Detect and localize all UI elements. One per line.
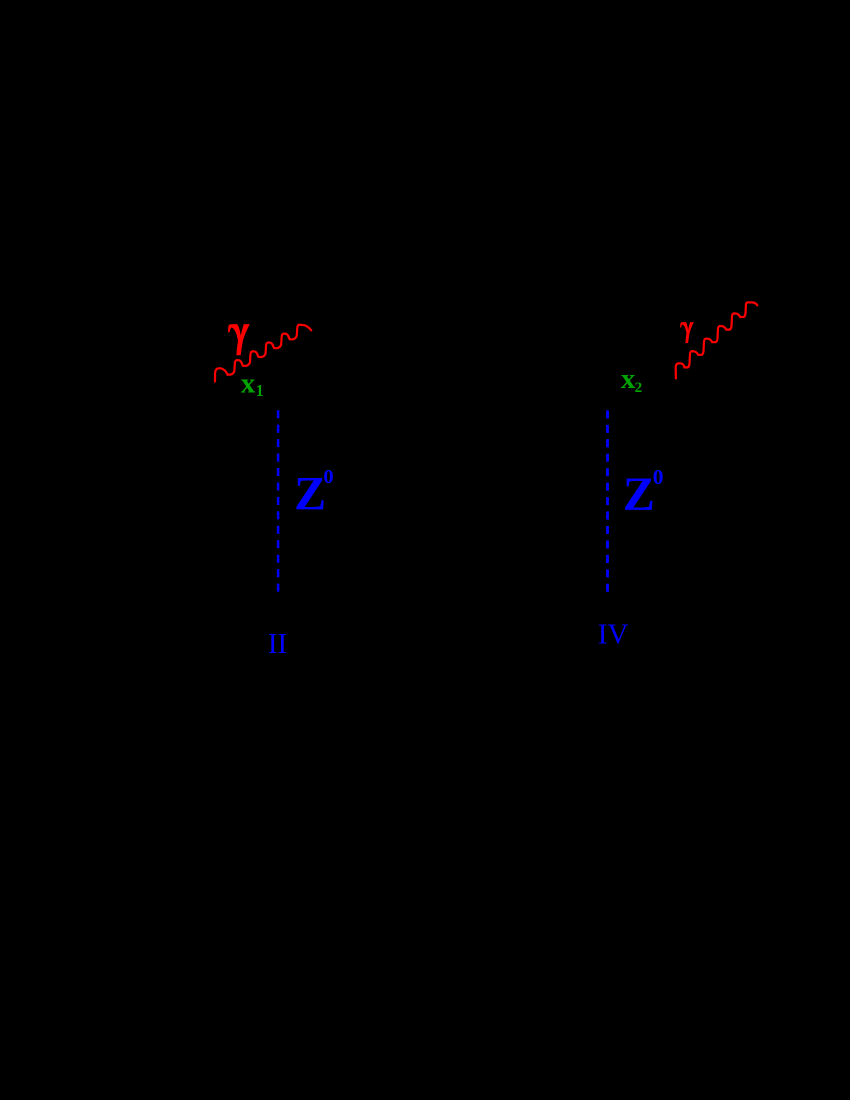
photon gamma wavy line (diagram IV) xyxy=(676,302,758,378)
Z0 propagator dashed line (diagram IV) xyxy=(606,410,609,591)
svg-text:II: II xyxy=(268,628,287,660)
photon gamma wavy line (diagram II) xyxy=(215,325,311,382)
svg-text:x: x xyxy=(241,368,256,400)
label gamma (right, red) xyxy=(680,322,694,343)
svg-text:IV: IV xyxy=(598,618,629,650)
Z0 propagator dashed line (diagram II) xyxy=(277,410,280,592)
svg-text:Z: Z xyxy=(294,468,326,521)
svg-text:0: 0 xyxy=(653,465,664,489)
label gamma (left, red) xyxy=(228,324,250,355)
svg-text:Z: Z xyxy=(623,468,655,521)
svg-text:2: 2 xyxy=(635,380,643,396)
svg-text:1: 1 xyxy=(256,381,264,400)
svg-text:0: 0 xyxy=(323,466,333,488)
